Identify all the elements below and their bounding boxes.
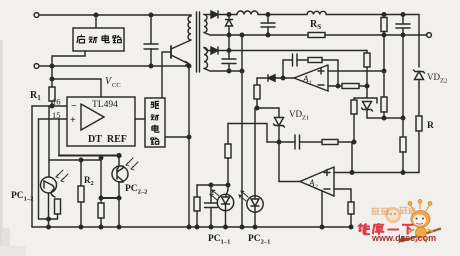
optocoupler PC2-1 LED xyxy=(247,108,263,227)
wire pin15 net to PC2-2 xyxy=(59,154,119,156)
label pin 16 xyxy=(52,97,61,107)
node PC1-1 top row xyxy=(226,183,230,187)
node rail dots xyxy=(47,225,353,229)
node minus net x367 xyxy=(365,84,369,88)
label R2 xyxy=(84,175,94,187)
node A1 output xyxy=(281,76,285,80)
svg-text:CC: CC xyxy=(112,82,121,89)
label PC2-2 xyxy=(125,184,147,196)
terminal input 2 xyxy=(34,64,39,69)
wire row 198 xyxy=(101,197,119,199)
node top rail / startup tap xyxy=(94,13,98,17)
TL494 box xyxy=(67,97,135,146)
label 启动电路 startup circuit text xyxy=(77,35,122,43)
node emitter on lower rail xyxy=(187,64,191,68)
wire node to VDZ1 xyxy=(257,108,279,117)
resistor R1 xyxy=(49,79,55,106)
wire ground column x242 xyxy=(241,35,243,227)
wire column x101 xyxy=(100,160,102,203)
label pin 15 xyxy=(52,110,61,120)
op-amp A2 xyxy=(300,167,334,196)
wire x403 column down xyxy=(402,35,404,118)
node startup/R1 column on lower rail xyxy=(50,64,54,68)
zener diode VZ ref xyxy=(362,102,373,119)
node x384 rail2 xyxy=(382,33,386,37)
resistor A2 compensation xyxy=(322,140,354,145)
diode D4 to PWM feedback xyxy=(257,75,283,81)
second rail Vo2 xyxy=(213,34,427,36)
wire pin15 net left column xyxy=(39,119,49,219)
resistor PC1-2 emitter xyxy=(49,199,61,219)
label A2 xyxy=(308,178,319,191)
label PC1-1 xyxy=(208,234,230,246)
wire pin16 net lower xyxy=(48,106,50,177)
diode D1 rectifier top xyxy=(210,11,229,18)
svg-text:TL494: TL494 xyxy=(92,100,118,110)
node PC2-2 top xyxy=(117,154,121,158)
light arrows out of PC1-1 xyxy=(210,190,219,200)
transistor Q1 switching xyxy=(171,40,191,66)
resistor below node x101 xyxy=(98,203,104,227)
label VDZ2 xyxy=(427,72,447,85)
node PC2-2 emitter row xyxy=(117,196,121,200)
node plus row x403 xyxy=(401,171,405,175)
node ground column x242 xyxy=(240,69,244,73)
wire A1 minus row xyxy=(328,85,342,87)
node D2 out xyxy=(227,49,231,53)
node A2 drive xyxy=(277,140,281,144)
node column x101 top xyxy=(99,156,102,159)
wire row185 xyxy=(197,184,228,186)
terminal input 1 xyxy=(34,13,39,18)
watermark mascot xyxy=(398,200,441,244)
wire pin16 net left column to ground rail xyxy=(31,106,33,227)
resistor A1 minus series xyxy=(342,84,367,89)
wire D2 node up to rail2 xyxy=(228,35,230,51)
transformer T1 primary winding xyxy=(188,15,191,40)
svg-text:www.dzsc.com: www.dzsc.com xyxy=(371,233,436,243)
svg-text:R: R xyxy=(427,121,434,131)
rail3 sense line xyxy=(229,50,367,52)
resistor divider lower x384 xyxy=(381,71,387,118)
node C2 bottom xyxy=(266,33,270,37)
wire A2 plus input row xyxy=(334,172,419,174)
node row185 x211 xyxy=(209,183,213,187)
inductor L1 xyxy=(229,11,268,14)
node L1 out xyxy=(266,13,270,17)
transformer T1 core xyxy=(197,12,200,72)
node cap top xyxy=(149,13,153,17)
node rail2 x242 xyxy=(240,33,244,37)
wire top rail xyxy=(39,14,191,16)
svg-text:15: 15 xyxy=(52,110,61,120)
node x101 row198 xyxy=(99,196,103,200)
wire primary ground column xyxy=(188,66,190,227)
node x384 rail1 xyxy=(382,13,386,17)
resistor divider upper x384 xyxy=(383,35,385,71)
label VDZ1 xyxy=(289,109,309,122)
wire top rail right xyxy=(268,14,307,16)
node R2 top xyxy=(79,158,83,162)
light arrows into PC1-2 xyxy=(56,170,68,182)
wire Vcc tap column xyxy=(51,66,53,79)
node drive ground xyxy=(187,135,191,139)
svg-text:+: + xyxy=(70,115,76,126)
capacitor output filter x403 xyxy=(396,15,410,36)
diode D2 rectifier bottom xyxy=(210,47,229,54)
wire winding return to ground column xyxy=(229,70,242,72)
node x403 rail1 xyxy=(401,13,405,17)
node x403 rail2 xyxy=(401,33,405,37)
op-amp A1 xyxy=(294,65,328,91)
wire to ground rail xyxy=(48,219,50,227)
watermark badge xyxy=(385,207,401,223)
capacitor C3 xyxy=(222,51,236,72)
node x257 xyxy=(255,106,259,110)
node winding return x229 xyxy=(227,69,231,73)
wire A2 minus input branch xyxy=(334,189,351,202)
wire A1 plus row xyxy=(328,70,384,72)
label A1 xyxy=(302,74,312,87)
label R1 xyxy=(30,90,41,102)
resistor RS current sense xyxy=(308,33,325,38)
node row118 x384 xyxy=(382,116,386,120)
ground rail bottom xyxy=(32,226,351,228)
transformer T1 secondary top winding xyxy=(204,15,213,36)
wire feedback row to R2 and PC columns xyxy=(49,159,101,161)
node plus row x352 xyxy=(350,171,354,175)
optocoupler PC1-1 LED xyxy=(217,185,233,227)
resistor A2 minus to ground xyxy=(348,202,354,227)
watermark url www.dzsc.com xyxy=(371,233,436,243)
wire Vcc to TL494 xyxy=(52,79,101,97)
node D1 out xyxy=(227,13,231,17)
zener diode VDZ1 xyxy=(274,118,285,143)
label 驱动电路 drive circuit text xyxy=(151,101,160,144)
capacitor A2 compensation xyxy=(279,135,322,149)
startup circuit box 启动电路 xyxy=(73,28,124,51)
wire zener bracket xyxy=(354,86,377,103)
resistor x403 lower xyxy=(400,118,406,173)
label DT REF xyxy=(88,134,127,145)
light arrows out of PC2-1 xyxy=(239,191,248,201)
resistor x197 xyxy=(194,185,200,227)
diode D3 freewheel xyxy=(226,15,233,36)
watermark text 维库一下 xyxy=(359,223,414,235)
optocoupler PC2-2 phototransistor xyxy=(112,156,128,199)
op-amp error amplifier inside TL494 xyxy=(81,104,104,130)
node rail2 x229 xyxy=(227,33,231,37)
wire rail1 corner down xyxy=(418,15,420,68)
wire drive box to ground column xyxy=(165,136,189,138)
node A1 minus xyxy=(336,84,340,88)
wire A2 ground stub xyxy=(321,191,323,228)
light arrows into PC2-2 xyxy=(126,158,138,170)
wire row118 xyxy=(367,117,403,119)
svg-text:−: − xyxy=(71,101,77,112)
svg-text:DT REF: DT REF xyxy=(88,134,127,145)
inductor L2 xyxy=(307,11,419,14)
resistor A1 feedback xyxy=(308,58,338,87)
capacitor C input xyxy=(144,15,158,66)
label TL494 xyxy=(92,100,118,110)
wire TL494 output to drive box xyxy=(135,118,145,120)
zener diode VDZ2 xyxy=(414,70,425,116)
wire divider mid column xyxy=(351,142,353,173)
capacitor C2 output top xyxy=(261,15,275,36)
wire lower input rail xyxy=(39,65,189,67)
optocoupler PC1-2 phototransistor xyxy=(41,177,57,219)
resistor R load xyxy=(416,116,422,173)
wire pin15 lead xyxy=(39,119,68,156)
resistor bleeder x384 top xyxy=(381,15,387,36)
wire A1 feedback RC riser xyxy=(282,60,284,78)
label minus pin16 xyxy=(71,101,77,112)
node row118 x403 xyxy=(401,116,405,120)
capacitor x211 xyxy=(205,185,218,227)
resistor R2 xyxy=(78,160,84,227)
node Vcc tap xyxy=(50,77,54,81)
wire PC2-2 emitter to rail xyxy=(118,198,120,227)
node R1 bottom xyxy=(50,104,54,108)
label R load xyxy=(427,121,434,131)
node cap bottom xyxy=(149,64,153,68)
label plus pin15 xyxy=(70,115,76,126)
label PC1-2 xyxy=(11,191,33,203)
label Vcc xyxy=(105,76,121,89)
watermark faint text xyxy=(371,207,415,214)
resistor below D4 xyxy=(254,78,260,108)
drive circuit box 驱动电路 xyxy=(145,98,165,147)
node PC1-2 bottom xyxy=(47,217,51,221)
wire A2 output to node xyxy=(279,142,300,182)
resistor zener-chain upper xyxy=(351,98,357,142)
wire pin16 lead xyxy=(32,105,67,107)
resistor rail3 drop xyxy=(364,51,370,87)
wire Q1 base to drive box xyxy=(162,52,171,98)
node comp at x354 xyxy=(352,140,356,144)
label RS xyxy=(310,19,321,31)
label PC2-1 xyxy=(248,234,270,246)
wire startup box top lead xyxy=(95,15,97,28)
terminal output xyxy=(427,33,432,38)
node A1 plus x384 xyxy=(382,69,386,73)
wire node to PC1-1 branch xyxy=(228,124,279,143)
svg-text:16: 16 xyxy=(52,97,61,107)
transformer T1 secondary bottom winding xyxy=(204,48,229,72)
wire A1 output xyxy=(283,77,294,79)
resistor PC1-1 drive xyxy=(225,124,231,186)
wire startup box bottom step xyxy=(52,51,85,66)
capacitor A1 feedback xyxy=(283,54,308,66)
